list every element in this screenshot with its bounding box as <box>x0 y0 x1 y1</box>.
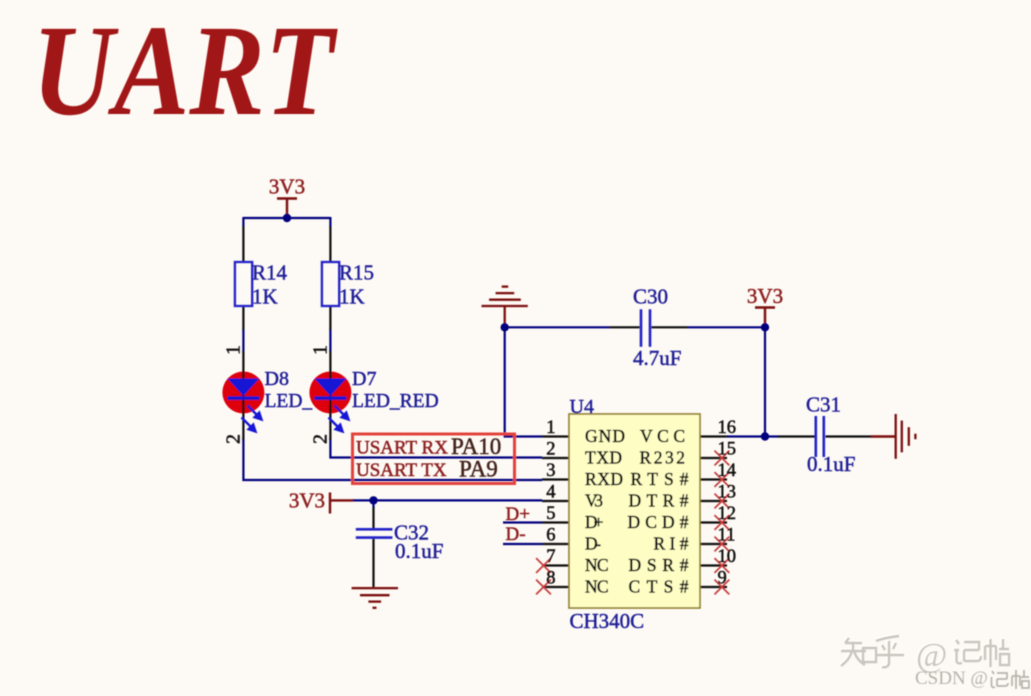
svg-text:16: 16 <box>718 418 737 438</box>
svg-text:D8: D8 <box>265 368 289 390</box>
svg-text:GND: GND <box>585 426 625 446</box>
svg-text:D7: D7 <box>352 368 376 390</box>
svg-text:D-: D- <box>506 524 526 545</box>
svg-text:0.1uF: 0.1uF <box>395 539 443 563</box>
svg-text:RXD: RXD <box>585 469 623 489</box>
svg-text:10: 10 <box>718 547 737 567</box>
svg-text:7: 7 <box>546 547 555 567</box>
svg-text:TXD: TXD <box>585 448 622 468</box>
svg-text:C31: C31 <box>806 393 841 417</box>
svg-text:PA9: PA9 <box>459 457 498 482</box>
svg-text:D+: D+ <box>585 512 604 532</box>
svg-text:CH340C: CH340C <box>570 609 645 633</box>
svg-text:1K: 1K <box>252 285 278 309</box>
svg-text:2: 2 <box>546 440 555 460</box>
svg-text:3V3: 3V3 <box>289 489 325 513</box>
svg-text:9: 9 <box>718 569 727 589</box>
svg-text:D-: D- <box>585 534 601 554</box>
svg-text:VCC: VCC <box>640 426 685 446</box>
svg-text:1K: 1K <box>339 285 365 309</box>
svg-text:14: 14 <box>718 461 737 481</box>
svg-text:4.7uF: 4.7uF <box>633 346 681 370</box>
svg-text:USART TX: USART TX <box>356 460 447 481</box>
svg-text:11: 11 <box>718 526 736 546</box>
svg-text:4: 4 <box>546 483 555 503</box>
svg-text:3V3: 3V3 <box>747 284 783 308</box>
svg-text:2: 2 <box>223 434 245 444</box>
svg-text:15: 15 <box>718 440 737 460</box>
svg-text:1: 1 <box>546 418 555 438</box>
svg-text:USART RX: USART RX <box>356 438 448 459</box>
svg-text:6: 6 <box>546 526 555 546</box>
svg-text:UART: UART <box>32 0 338 143</box>
svg-text:R15: R15 <box>339 261 374 285</box>
svg-text:3: 3 <box>546 461 555 481</box>
svg-text:1: 1 <box>310 345 332 355</box>
svg-text:3V3: 3V3 <box>269 175 305 199</box>
svg-text:12: 12 <box>718 504 737 524</box>
svg-text:V3: V3 <box>585 491 603 511</box>
svg-text:NC: NC <box>585 555 609 575</box>
svg-text:NC: NC <box>585 577 609 597</box>
svg-text:2: 2 <box>310 434 332 444</box>
svg-text:1: 1 <box>223 345 245 355</box>
svg-text:R14: R14 <box>252 261 288 285</box>
svg-text:13: 13 <box>718 483 737 503</box>
svg-text:U4: U4 <box>570 396 594 418</box>
svg-text:D+: D+ <box>506 504 530 525</box>
svg-text:5: 5 <box>546 504 555 524</box>
svg-text:PA10: PA10 <box>451 434 501 459</box>
svg-text:R232: R232 <box>640 448 686 468</box>
svg-text:LED_RED: LED_RED <box>352 391 439 412</box>
svg-text:0.1uF: 0.1uF <box>807 452 855 476</box>
svg-text:8: 8 <box>546 569 555 589</box>
svg-text:LED_: LED_ <box>265 391 313 412</box>
svg-text:C30: C30 <box>633 285 668 309</box>
svg-text:RI#: RI# <box>654 534 689 554</box>
svg-text:CSDN @: CSDN @ <box>915 668 988 689</box>
